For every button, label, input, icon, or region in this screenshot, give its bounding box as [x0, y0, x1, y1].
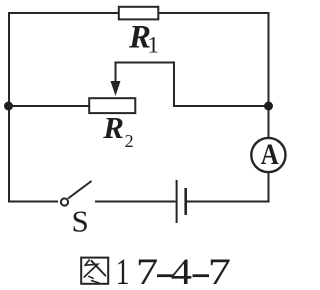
wire top left segment — [8, 12, 119, 14]
svg-text:7: 7 — [208, 252, 231, 290]
wire wiper horizontal — [115, 62, 176, 64]
rheostat R2 — [89, 98, 135, 113]
svg-text:7: 7 — [136, 252, 158, 290]
wire middle left — [9, 105, 89, 107]
svg-text:1: 1 — [148, 33, 160, 58]
svg-text:4: 4 — [171, 252, 193, 290]
ammeter U1 — [251, 138, 285, 172]
label R2 — [102, 110, 133, 151]
caption number 17-4-7 — [116, 252, 231, 290]
svg-text:1: 1 — [116, 252, 130, 290]
wire wiper vertical down — [173, 63, 175, 108]
node right junction — [264, 102, 273, 111]
wire top right segment — [159, 12, 270, 14]
wire right rail upper — [268, 12, 270, 138]
svg-text:R: R — [102, 110, 124, 145]
svg-text:A: A — [261, 138, 279, 171]
node left junction — [4, 102, 13, 111]
wiper arrow of R2 — [111, 62, 121, 96]
svg-text:S: S — [72, 204, 89, 239]
battery cell BT1 — [177, 180, 186, 223]
switch S — [61, 181, 92, 206]
wire battery to corner — [187, 201, 270, 203]
caption hanzi TU (drawn) — [81, 258, 108, 284]
wire right rail lower — [268, 173, 270, 203]
resistor R1 — [119, 7, 159, 20]
wire switch to battery — [95, 201, 176, 203]
wire middle right — [174, 105, 269, 107]
label R1 — [128, 20, 159, 58]
wire left rail — [8, 12, 10, 203]
svg-text:2: 2 — [125, 131, 134, 151]
wire bottom left — [9, 201, 58, 203]
